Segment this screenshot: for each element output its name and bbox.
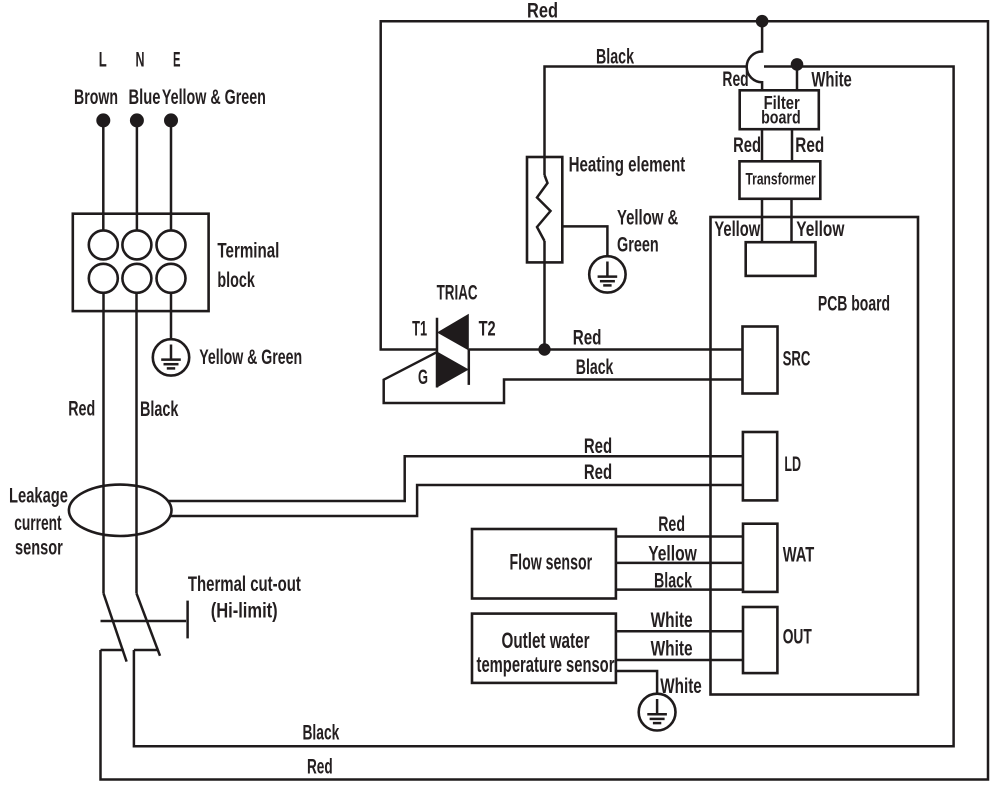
svg-text:G: G xyxy=(418,366,428,389)
wire TRIAC T2 to SRC (Red) xyxy=(469,348,743,351)
svg-text:Yellow: Yellow xyxy=(648,542,697,565)
connector SRC xyxy=(743,327,778,394)
svg-text:Black: Black xyxy=(576,356,614,379)
svg-text:T2: T2 xyxy=(479,317,496,340)
svg-text:L: L xyxy=(99,48,107,71)
svg-text:Black: Black xyxy=(140,398,179,421)
TRIAC Q1 xyxy=(437,314,469,388)
terminal block TB1 xyxy=(73,214,209,311)
terminal dot N xyxy=(130,113,144,127)
svg-text:PCB board: PCB board xyxy=(818,292,890,315)
svg-text:Yellow & Green: Yellow & Green xyxy=(162,86,266,109)
svg-text:Red: Red xyxy=(527,0,558,22)
wire transformer to PCB connector right (Yellow) xyxy=(790,199,793,242)
svg-text:White: White xyxy=(660,675,702,698)
svg-text:LD: LD xyxy=(784,453,801,476)
svg-text:Red: Red xyxy=(307,755,333,778)
wire L input to terminal block xyxy=(102,120,105,230)
wire flow sensor Black to WAT xyxy=(616,588,743,591)
leakage current sensor toroid xyxy=(69,485,172,536)
junction dot heating element / T2 xyxy=(538,343,550,355)
leakage current sensor label xyxy=(9,484,68,559)
svg-text:Red: Red xyxy=(573,326,602,349)
svg-text:(Hi-limit): (Hi-limit) xyxy=(211,600,278,623)
svg-text:Thermal cut-out: Thermal cut-out xyxy=(188,573,301,596)
earth label Yellow & Green (heating element) xyxy=(617,207,678,257)
svg-text:Transformer: Transformer xyxy=(746,169,816,188)
connector LD xyxy=(743,432,777,500)
svg-text:sensor: sensor xyxy=(15,536,63,559)
thermal cut-out label xyxy=(188,573,301,623)
svg-text:Yellow & Green: Yellow & Green xyxy=(199,346,302,369)
svg-text:Black: Black xyxy=(302,721,339,744)
junction dot white wire on black line xyxy=(791,58,804,71)
PCB power connector xyxy=(746,242,816,276)
svg-text:Yellow: Yellow xyxy=(714,218,760,241)
wire White (thick) from black line to filter board xyxy=(796,64,799,90)
transformer T1 xyxy=(740,161,821,199)
svg-text:White: White xyxy=(651,609,693,632)
heating element R1 xyxy=(527,157,562,262)
svg-text:Terminal: Terminal xyxy=(217,240,279,263)
connector OUT xyxy=(743,607,777,673)
svg-text:White: White xyxy=(811,69,851,92)
svg-text:Brown: Brown xyxy=(74,86,118,109)
svg-text:WAT: WAT xyxy=(783,543,815,566)
svg-text:TRIAC: TRIAC xyxy=(437,282,478,305)
ground earth symbol (outlet sensor) xyxy=(639,694,676,731)
ground earth symbol (heating element) xyxy=(589,256,625,292)
flow sensor box xyxy=(472,529,616,599)
wire N input to terminal block xyxy=(136,120,139,230)
svg-text:Leakage: Leakage xyxy=(9,484,68,507)
svg-text:Red: Red xyxy=(584,461,612,484)
svg-text:Black: Black xyxy=(654,570,692,593)
wire red drop with hop over black wire into filter board xyxy=(747,21,762,90)
svg-text:Yellow: Yellow xyxy=(796,218,845,241)
wire L (Red) terminal block down to thermal cut-out xyxy=(102,293,105,594)
svg-text:Red: Red xyxy=(68,398,95,421)
svg-text:E: E xyxy=(173,48,181,71)
wire Black bottom loop (switch to right side, up to top black line) xyxy=(134,67,954,747)
ground earth symbol (terminal block) xyxy=(153,339,189,375)
svg-text:Flow sensor: Flow sensor xyxy=(510,549,593,574)
wire filter board to transformer right (Red) xyxy=(791,129,794,161)
svg-text:Red: Red xyxy=(584,435,612,458)
terminal block label xyxy=(217,240,279,292)
wire leakage sensor lower (Red) to LD xyxy=(170,485,743,516)
wire E input to terminal block xyxy=(170,120,173,230)
svg-text:SRC: SRC xyxy=(783,348,811,371)
svg-text:Red: Red xyxy=(733,134,761,157)
wire outlet sensor White 1 to OUT xyxy=(616,630,743,633)
PCB board outline xyxy=(711,217,919,695)
svg-text:N: N xyxy=(136,48,145,71)
svg-text:Red: Red xyxy=(722,68,748,91)
terminal dot L xyxy=(96,113,110,127)
svg-text:Yellow &: Yellow & xyxy=(617,207,678,230)
outlet water temperature sensor label xyxy=(477,628,615,677)
svg-text:temperature sensor: temperature sensor xyxy=(477,652,615,677)
wire outlet sensor White 2 to OUT xyxy=(616,659,743,662)
wire E terminal block to earth xyxy=(170,293,173,339)
svg-text:White: White xyxy=(651,638,693,661)
wire heating element bottom to T2 junction xyxy=(543,241,546,350)
wire filter board to transformer left (Red) xyxy=(761,129,764,161)
svg-text:current: current xyxy=(14,512,61,535)
wire Black top segment to heating element xyxy=(545,67,747,176)
svg-text:Green: Green xyxy=(617,233,659,256)
svg-text:board: board xyxy=(761,108,801,128)
wire N (Black) terminal block down to thermal cut-out xyxy=(135,293,138,594)
svg-text:OUT: OUT xyxy=(783,626,812,649)
svg-text:Red: Red xyxy=(795,134,824,157)
svg-text:Black: Black xyxy=(596,46,634,69)
wire flow sensor Red to WAT xyxy=(616,535,743,538)
filter board label xyxy=(761,93,801,128)
connector WAT xyxy=(743,524,777,592)
wire TRIAC gate to SRC (Black) xyxy=(384,352,743,403)
svg-text:T1: T1 xyxy=(412,317,427,340)
wire transformer to PCB connector left (Yellow) xyxy=(761,199,764,242)
wire flow sensor Yellow to WAT xyxy=(616,562,743,565)
terminal dot E xyxy=(164,113,178,127)
wire outlet sensor White 3 to earth xyxy=(616,671,657,694)
wire leakage sensor upper (Red) to LD xyxy=(168,456,743,501)
svg-text:Blue: Blue xyxy=(129,86,161,109)
outlet water temperature sensor box xyxy=(472,614,616,683)
wire heating element earth tap xyxy=(562,226,607,256)
filter board U2 xyxy=(740,90,819,129)
junction dot on top red wire xyxy=(756,15,769,28)
svg-text:Outlet water: Outlet water xyxy=(502,628,590,653)
svg-text:Red: Red xyxy=(658,513,685,536)
svg-text:Heating element: Heating element xyxy=(569,154,686,177)
svg-text:block: block xyxy=(217,269,255,292)
thermal cut-out switch S1 xyxy=(101,593,188,661)
